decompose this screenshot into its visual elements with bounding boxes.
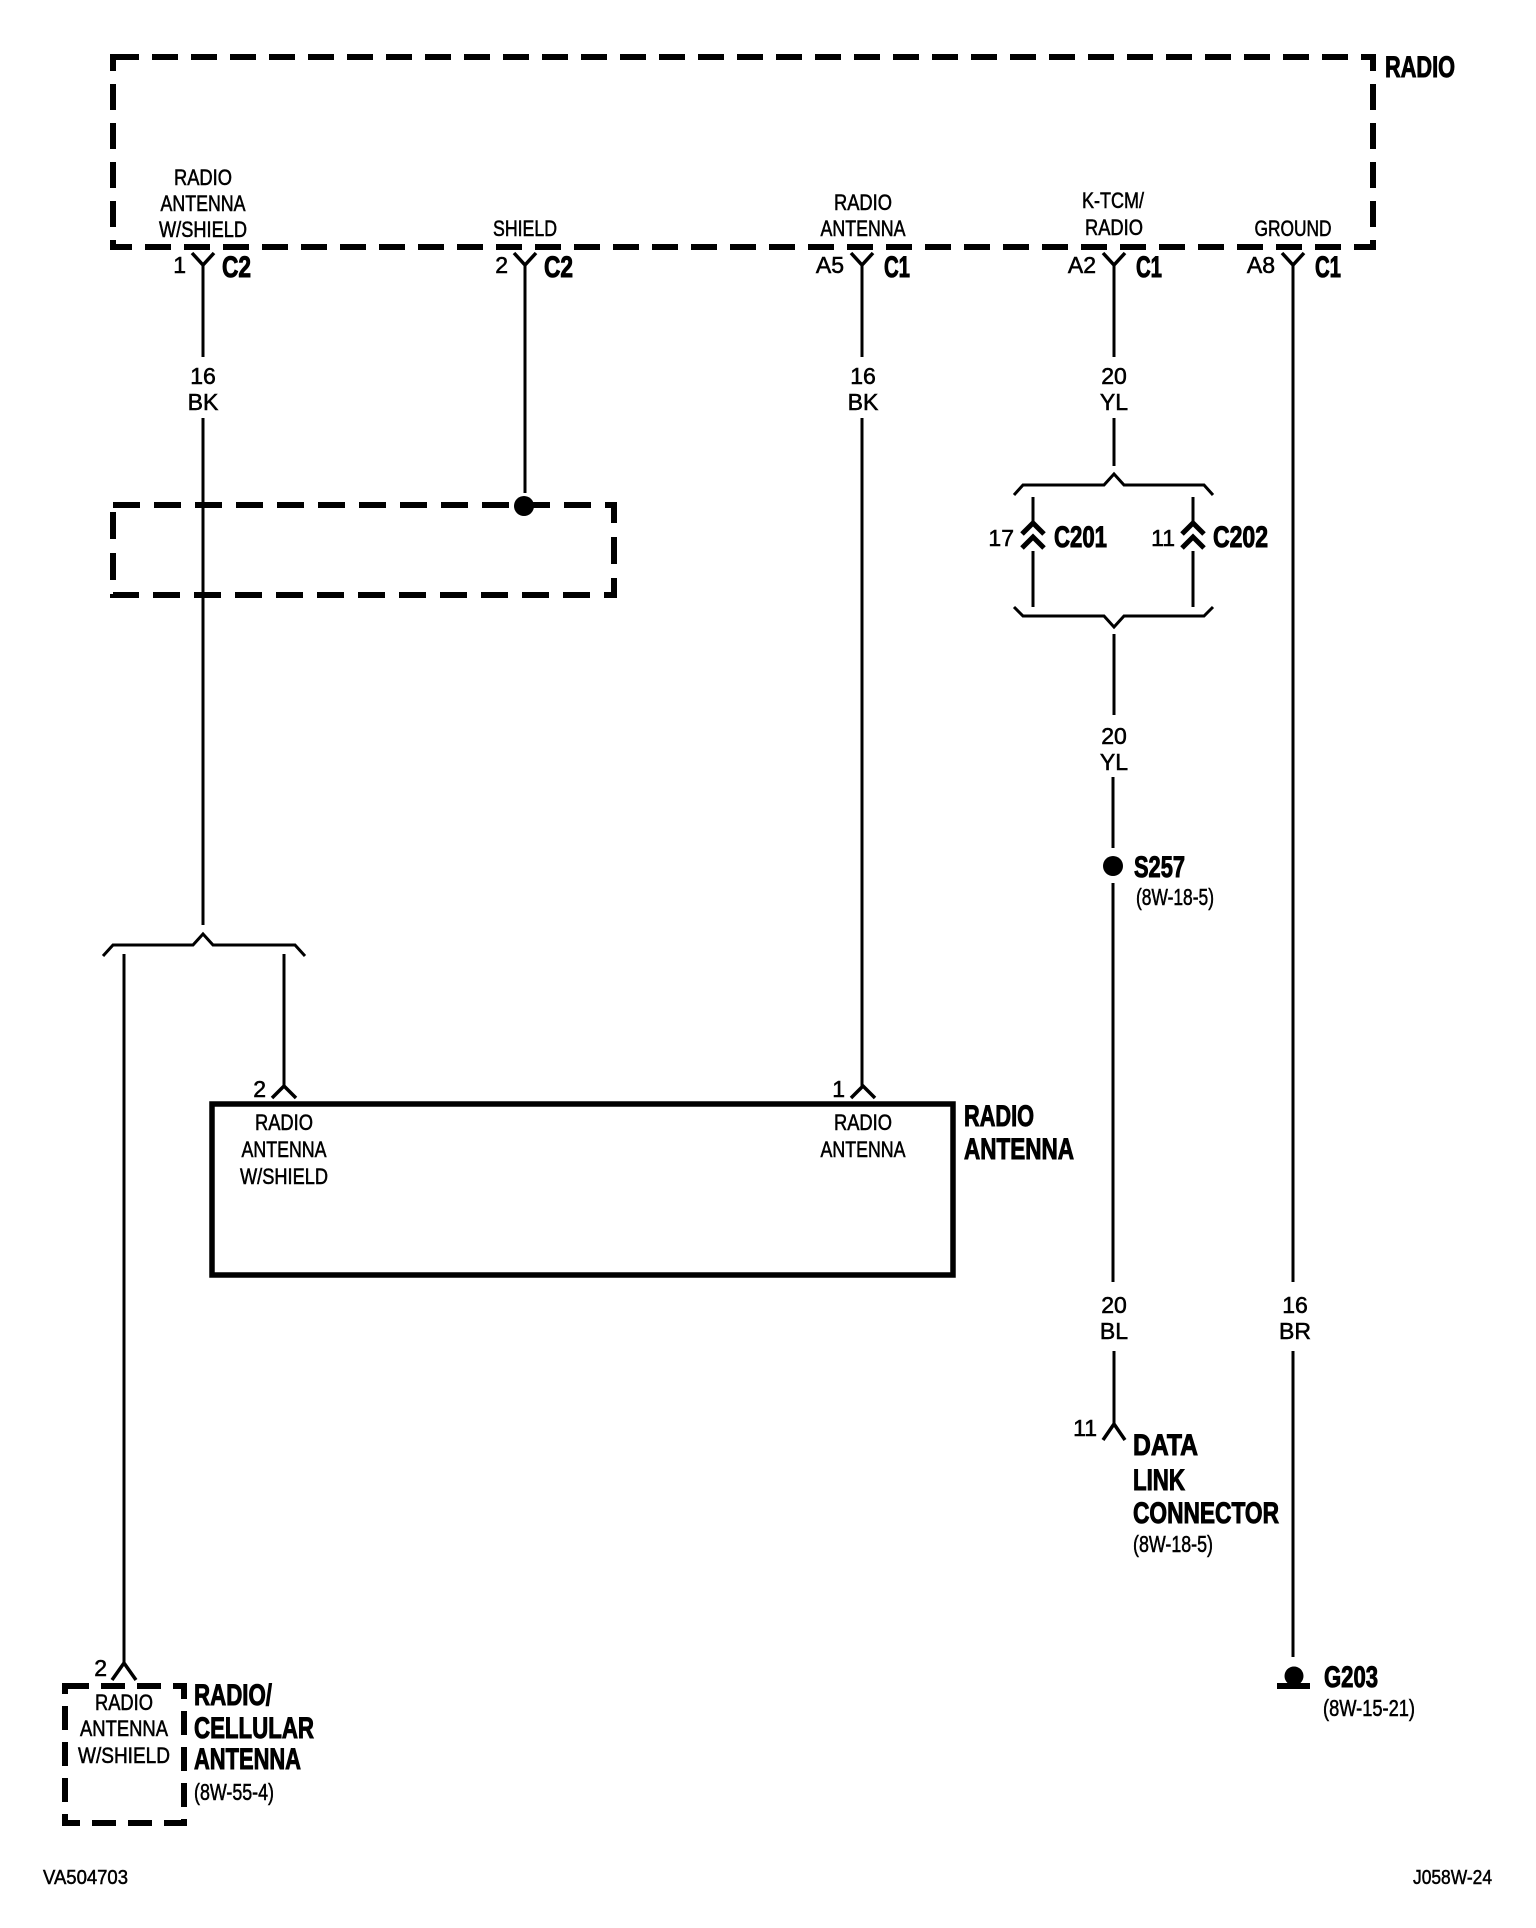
svg-text:1: 1 <box>173 252 186 278</box>
radio/cellular antenna box (dashed) <box>65 1686 184 1823</box>
brace rejoining C201/C202 branches <box>1014 607 1213 627</box>
svg-text:RADIO: RADIO <box>1385 51 1455 84</box>
connector pin A8 C1 <box>1282 253 1304 265</box>
svg-text:DATA: DATA <box>1133 1429 1198 1462</box>
shield grouping box (dashed) <box>113 505 614 595</box>
svg-text:K-TCM/: K-TCM/ <box>1082 188 1145 213</box>
svg-text:ANTENNA: ANTENNA <box>821 1137 906 1162</box>
wire branch to C202 <box>1192 497 1195 521</box>
brace splitting shielded antenna wire <box>103 934 305 956</box>
svg-text:C1: C1 <box>1315 251 1341 284</box>
svg-text:20: 20 <box>1101 363 1127 389</box>
wire label 20 BL <box>1100 1292 1128 1344</box>
wire label 20 YL <box>1100 723 1128 775</box>
svg-text:ANTENNA: ANTENNA <box>964 1133 1074 1166</box>
svg-text:ANTENNA: ANTENNA <box>80 1716 168 1741</box>
wire below C201 <box>1032 551 1035 607</box>
svg-text:ANTENNA: ANTENNA <box>194 1743 301 1776</box>
wire below brace <box>1113 634 1116 715</box>
brace splitting A2 wire to C201/C202 <box>1014 474 1213 495</box>
splice S257 <box>1103 856 1123 876</box>
wire branch to C201 <box>1032 497 1035 521</box>
wire label 16 BK <box>848 363 879 415</box>
svg-text:17: 17 <box>988 525 1014 551</box>
svg-text:C202: C202 <box>1213 521 1268 554</box>
svg-text:W/SHIELD: W/SHIELD <box>159 217 247 242</box>
svg-text:G203: G203 <box>1324 1661 1378 1694</box>
wire label 16 BK <box>188 363 219 415</box>
svg-text:LINK: LINK <box>1133 1464 1185 1497</box>
svg-text:16: 16 <box>190 363 216 389</box>
wire pin1 C2 upper segment <box>202 265 205 357</box>
svg-text:RADIO: RADIO <box>95 1690 153 1715</box>
svg-text:RADIO: RADIO <box>964 1100 1034 1133</box>
connector pin 2 radio/cellular antenna <box>112 1663 136 1680</box>
svg-text:W/SHIELD: W/SHIELD <box>78 1743 170 1768</box>
svg-text:(8W-15-21): (8W-15-21) <box>1323 1695 1415 1721</box>
svg-text:J058W-24: J058W-24 <box>1413 1867 1492 1889</box>
connector pin A5 C1 <box>851 253 873 265</box>
svg-text:RADIO: RADIO <box>174 165 232 190</box>
svg-text:RADIO: RADIO <box>834 1110 892 1135</box>
svg-text:CELLULAR: CELLULAR <box>194 1712 314 1745</box>
wire label 16 BR <box>1279 1292 1311 1344</box>
svg-text:11: 11 <box>1151 525 1175 551</box>
svg-text:C2: C2 <box>222 251 251 284</box>
connector pin 2 radio antenna <box>272 1086 296 1098</box>
svg-text:11: 11 <box>1073 1415 1097 1441</box>
wire A2 segment to C201/C202 brace <box>1113 418 1116 466</box>
connector pin 11 data link connector <box>1103 1424 1125 1440</box>
wire branch to radio/cellular antenna <box>123 954 126 1663</box>
wire branch to radio antenna pin 2 <box>283 954 286 1086</box>
svg-text:RADIO: RADIO <box>255 1110 313 1135</box>
wire to splice S257 <box>1112 777 1115 848</box>
svg-text:C1: C1 <box>884 251 910 284</box>
svg-text:SHIELD: SHIELD <box>493 216 557 241</box>
svg-text:20: 20 <box>1101 723 1127 749</box>
svg-text:A2: A2 <box>1068 252 1096 278</box>
svg-text:S257: S257 <box>1134 851 1185 884</box>
wire below C202 <box>1192 551 1195 607</box>
radio module box (dashed) <box>113 57 1373 247</box>
svg-text:16: 16 <box>1282 1292 1308 1318</box>
ground G203 symbol <box>1277 1667 1310 1690</box>
connector pin A2 C1 <box>1103 253 1125 265</box>
svg-text:20: 20 <box>1101 1292 1127 1318</box>
connector pin 1 radio antenna <box>851 1086 875 1098</box>
svg-text:(8W-18-5): (8W-18-5) <box>1136 884 1214 910</box>
svg-text:W/SHIELD: W/SHIELD <box>240 1164 328 1189</box>
node label RADIO ANTENNA (pin A5 C1) <box>821 190 906 241</box>
node label RADIO ANTENNA inside box <box>821 1110 906 1162</box>
node label RADIO ANTENNA W/SHIELD (pin 1 C2) <box>159 165 247 242</box>
radio antenna box <box>212 1104 953 1275</box>
wire A8 ground upper long segment <box>1292 265 1295 1282</box>
svg-text:YL: YL <box>1100 749 1128 775</box>
inline connector C201 (pin 17) <box>1022 523 1044 548</box>
svg-text:16: 16 <box>850 363 876 389</box>
wire pin1 C2 lower segment <box>202 418 205 925</box>
wire shield pin2 C2 <box>524 265 527 493</box>
svg-text:VA504703: VA504703 <box>43 1867 128 1889</box>
inline connector C202 (pin 11) <box>1182 523 1204 548</box>
svg-text:GROUND: GROUND <box>1255 216 1332 241</box>
svg-text:C201: C201 <box>1054 521 1107 554</box>
wire A5 upper segment <box>861 265 864 357</box>
svg-text:CONNECTOR: CONNECTOR <box>1133 1497 1279 1530</box>
svg-text:RADIO: RADIO <box>834 190 892 215</box>
svg-text:1: 1 <box>832 1076 845 1102</box>
node label RADIO ANTENNA W/SHIELD inside dashed box <box>78 1690 170 1768</box>
wire below S257 <box>1112 883 1115 1282</box>
svg-text:2: 2 <box>94 1655 107 1681</box>
svg-text:BK: BK <box>188 389 219 415</box>
wire A5 lower segment to antenna box pin 1 <box>861 418 864 1086</box>
svg-text:C2: C2 <box>544 251 573 284</box>
svg-text:(8W-55-4): (8W-55-4) <box>194 1779 274 1805</box>
svg-text:BK: BK <box>848 389 879 415</box>
wire to ground G203 <box>1292 1351 1295 1657</box>
node label RADIO ANTENNA W/SHIELD inside box <box>240 1110 328 1189</box>
svg-text:A5: A5 <box>816 252 844 278</box>
connector pin 1 C2 <box>192 253 214 265</box>
svg-text:A8: A8 <box>1247 252 1275 278</box>
svg-text:(8W-18-5): (8W-18-5) <box>1133 1531 1213 1557</box>
node label K-TCM/RADIO (pin A2 C1) <box>1082 188 1145 240</box>
svg-text:ANTENNA: ANTENNA <box>821 216 906 241</box>
svg-text:BR: BR <box>1279 1318 1311 1344</box>
svg-text:ANTENNA: ANTENNA <box>242 1137 327 1162</box>
connector pin 2 C2 <box>514 253 536 265</box>
svg-text:RADIO: RADIO <box>1085 215 1143 240</box>
svg-text:ANTENNA: ANTENNA <box>161 191 246 216</box>
junction dot shield to shield-box <box>514 496 534 516</box>
svg-text:2: 2 <box>253 1076 266 1102</box>
svg-text:2: 2 <box>495 252 508 278</box>
svg-text:YL: YL <box>1100 389 1128 415</box>
svg-text:BL: BL <box>1100 1318 1128 1344</box>
svg-text:C1: C1 <box>1136 251 1162 284</box>
wire label 20 YL <box>1100 363 1128 415</box>
wire to data link connector <box>1113 1351 1116 1423</box>
wire A2 upper segment <box>1113 265 1116 357</box>
svg-text:RADIO/: RADIO/ <box>194 1679 272 1712</box>
